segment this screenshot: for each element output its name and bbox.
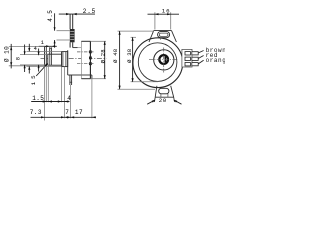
bottom slot xyxy=(159,88,169,97)
dim 20 bottom tab xyxy=(147,97,181,104)
dim O38 xyxy=(126,37,158,82)
dim O48 xyxy=(112,31,155,89)
wire labels xyxy=(206,47,231,64)
middle ring xyxy=(154,50,174,70)
retaining plate xyxy=(50,48,52,64)
center slot bar xyxy=(165,57,167,63)
svg-text:20: 20 xyxy=(159,97,167,104)
svg-text:Ø 28: Ø 28 xyxy=(100,49,107,63)
svg-text:16: 16 xyxy=(162,7,171,14)
dim row 1.5 and 4 xyxy=(31,95,71,103)
svg-text:orange: orange xyxy=(206,57,225,64)
svg-text:4: 4 xyxy=(67,95,71,102)
dim 2.5 shaft width xyxy=(59,8,96,15)
inner ring xyxy=(159,55,168,64)
hub body xyxy=(68,48,82,75)
dim O28 plate xyxy=(90,41,106,78)
bottom extension lines xyxy=(45,66,92,120)
dim 4.5 flat length xyxy=(47,10,70,48)
dim row 7.3 7 17 xyxy=(30,109,96,118)
dim washer line xyxy=(27,44,62,74)
svg-text:2.5: 2.5 xyxy=(83,8,96,15)
dim 16 tab width xyxy=(148,7,180,29)
knurled shaft section xyxy=(70,29,75,42)
svg-text:4.5: 4.5 xyxy=(47,10,54,22)
terminals side view xyxy=(77,51,94,66)
terminal lugs xyxy=(185,51,204,66)
centerline left view xyxy=(41,58,107,60)
svg-text:7: 7 xyxy=(65,109,69,116)
disc front washer xyxy=(45,47,47,66)
pot body plate xyxy=(81,41,92,79)
washer stack xyxy=(62,52,68,67)
svg-text:17: 17 xyxy=(75,109,83,116)
dim 4 xyxy=(34,46,40,72)
bushing xyxy=(48,54,62,65)
outer circle body xyxy=(133,38,183,88)
bottom mounting tab xyxy=(155,86,174,97)
dim O10 disc xyxy=(3,44,44,69)
svg-text:Ø 48: Ø 48 xyxy=(112,49,119,63)
dim 1 plate thickness xyxy=(39,39,57,48)
svg-text:1: 1 xyxy=(41,39,45,46)
svg-text:Ø 38: Ø 38 xyxy=(126,49,133,63)
crosshair center lines xyxy=(149,48,178,73)
top mounting tab xyxy=(149,31,176,42)
shaft stub xyxy=(70,42,73,47)
leader 15 xyxy=(30,63,48,85)
terminal housing xyxy=(182,49,192,67)
svg-text:8: 8 xyxy=(16,57,22,61)
svg-text:4: 4 xyxy=(34,46,38,52)
top slot xyxy=(158,32,170,40)
lower shaft stub xyxy=(69,75,72,85)
svg-text:15: 15 xyxy=(30,72,37,85)
svg-text:Ø 10: Ø 10 xyxy=(3,46,10,62)
dim 8 bushing xyxy=(16,45,48,73)
shaft upper section xyxy=(70,14,73,29)
svg-text:7.3: 7.3 xyxy=(30,109,42,116)
circle O38 xyxy=(138,43,177,82)
svg-text:1.5: 1.5 xyxy=(32,95,44,102)
